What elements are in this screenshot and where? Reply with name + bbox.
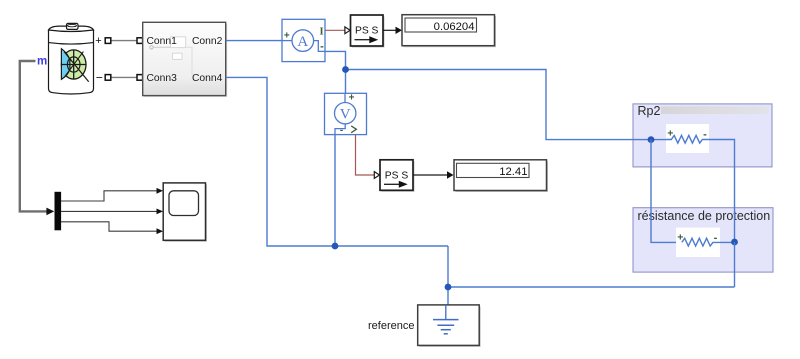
node m label	[37, 56, 47, 68]
svg-text:Conn4: Conn4	[192, 73, 223, 84]
svg-text:A: A	[297, 34, 308, 50]
svg-text:m: m	[37, 56, 47, 68]
wire demux out2 to scope in2	[61, 209, 163, 215]
wire U5 to display D2	[413, 171, 454, 178]
wire battery+ to Conn1	[110, 40, 138, 42]
battery B (Simscape battery block)	[49, 23, 94, 94]
svg-text:+: +	[349, 92, 355, 103]
ground label reference	[368, 320, 414, 332]
svg-text:-: -	[320, 41, 324, 53]
subsystem U1 (Conn1..Conn4)	[143, 22, 228, 97]
port square battery -	[105, 75, 111, 81]
ground node junction	[445, 284, 452, 291]
svg-text:Conn2: Conn2	[192, 36, 223, 47]
svg-text:V: V	[340, 107, 351, 123]
resistor R1 (Rp2)	[666, 124, 709, 153]
svg-text:+: +	[284, 30, 290, 41]
battery - label	[96, 71, 103, 85]
wire node C down to R2 +	[651, 140, 682, 243]
wire Conn2 to ammeter +	[226, 40, 282, 42]
ammeter U2 (current sensor)	[282, 19, 325, 61]
node C junction (Rp2 +)	[648, 136, 655, 143]
voltmeter U4 (voltage sensor)	[325, 92, 367, 136]
node D junction	[731, 239, 738, 246]
wire node D down to ground wire	[734, 242, 736, 287]
node A junction	[342, 66, 349, 73]
wire voltmeter PS output (physical signal)	[356, 135, 380, 179]
area box resistance de protection	[633, 208, 773, 272]
wire ammeter I output (physical signal)	[325, 27, 350, 34]
svg-text:−: −	[96, 71, 103, 85]
PS-Simulink converter U5	[380, 160, 415, 192]
wire m from battery to demux	[20, 61, 54, 215]
port square battery +	[105, 38, 111, 44]
display D2 (12.41)	[454, 160, 548, 192]
area box Rp2	[633, 104, 772, 167]
svg-text:reference: reference	[368, 320, 414, 332]
wire Conn4 down and right to node B	[226, 77, 448, 246]
battery icon (globe + sail)	[61, 49, 88, 82]
wire demux out1 to scope in1	[61, 188, 163, 201]
demux M1	[55, 192, 62, 231]
port square subsystem Conn1	[137, 38, 143, 44]
wire demux out3 to scope in3	[61, 222, 163, 234]
svg-text:PS S: PS S	[355, 25, 379, 36]
svg-text:Conn1: Conn1	[147, 36, 178, 47]
svg-text:Conn3: Conn3	[147, 73, 178, 84]
wire R2 - to node D	[717, 241, 735, 243]
wire U3 to display D1	[383, 27, 402, 34]
svg-text:12.41: 12.41	[499, 166, 527, 178]
display D1 (0.06204)	[402, 15, 496, 48]
svg-text:résistance de protection: résistance de protection	[638, 209, 771, 223]
svg-text:PS S: PS S	[385, 170, 409, 181]
wire ammeter - down to node A	[325, 51, 346, 93]
wire node B to ground node	[447, 246, 449, 305]
wire ground node to resistor network bottom	[448, 286, 735, 288]
resistor R2 (protection)	[676, 228, 720, 257]
svg-text:-: -	[703, 128, 707, 140]
wire voltmeter - down to node B	[334, 135, 336, 246]
scope S1	[163, 183, 207, 242]
wire battery- to Conn3	[110, 76, 138, 78]
svg-text:Rp2: Rp2	[638, 104, 661, 118]
svg-text:-: -	[340, 125, 343, 136]
svg-text:+: +	[95, 35, 101, 47]
svg-text:0.06204: 0.06204	[434, 21, 475, 33]
battery + label	[95, 35, 101, 47]
wire node A right to Rp2	[346, 70, 671, 140]
wire R1 - down to node D	[709, 140, 735, 243]
port square subsystem Conn3	[137, 75, 143, 81]
node B junction	[332, 243, 339, 250]
svg-text:I: I	[320, 26, 324, 37]
PS-Simulink converter U3	[351, 15, 385, 48]
ground block (electrical reference)	[418, 305, 481, 347]
